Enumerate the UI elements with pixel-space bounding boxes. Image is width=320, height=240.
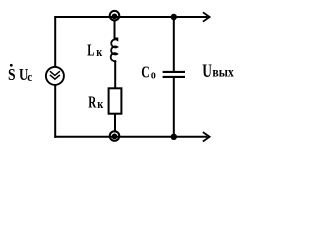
wire inductor to resistor — [114, 61, 116, 89]
wire left branch upper — [54, 16, 56, 66]
svg-text:c: c — [27, 69, 32, 84]
capacitor Co plates — [163, 72, 185, 77]
wire node to inductor — [114, 20, 116, 39]
wire capacitor upper lead — [173, 17, 175, 71]
junction dot bottom right — [171, 134, 177, 140]
svg-text:C: C — [141, 63, 150, 82]
svg-text:S: S — [8, 65, 16, 84]
wire bottom rail — [54, 136, 207, 138]
junction dot top right — [171, 14, 177, 20]
inductor Lk coil — [111, 38, 118, 61]
output arrow bottom — [203, 132, 210, 141]
wire top rail — [54, 16, 207, 18]
node B terminal bottom (ring with junction dot) — [110, 131, 120, 141]
svg-text:к: к — [96, 44, 102, 59]
svg-text:к: к — [97, 96, 103, 111]
svg-text:L: L — [87, 40, 94, 59]
label S dot (phasor) — [10, 64, 13, 67]
wire left branch lower — [54, 86, 56, 138]
svg-text:R: R — [88, 93, 96, 112]
output arrow top — [203, 12, 210, 21]
svg-text:о: о — [151, 66, 156, 81]
wire capacitor lower lead — [173, 78, 175, 137]
wire resistor to bottom node — [114, 114, 116, 133]
svg-text:вых: вых — [212, 65, 233, 80]
svg-text:U: U — [202, 62, 212, 82]
current source SUc circle — [46, 67, 64, 85]
node A terminal top (ring with junction dot) — [110, 11, 120, 21]
resistor Rk — [109, 88, 122, 113]
